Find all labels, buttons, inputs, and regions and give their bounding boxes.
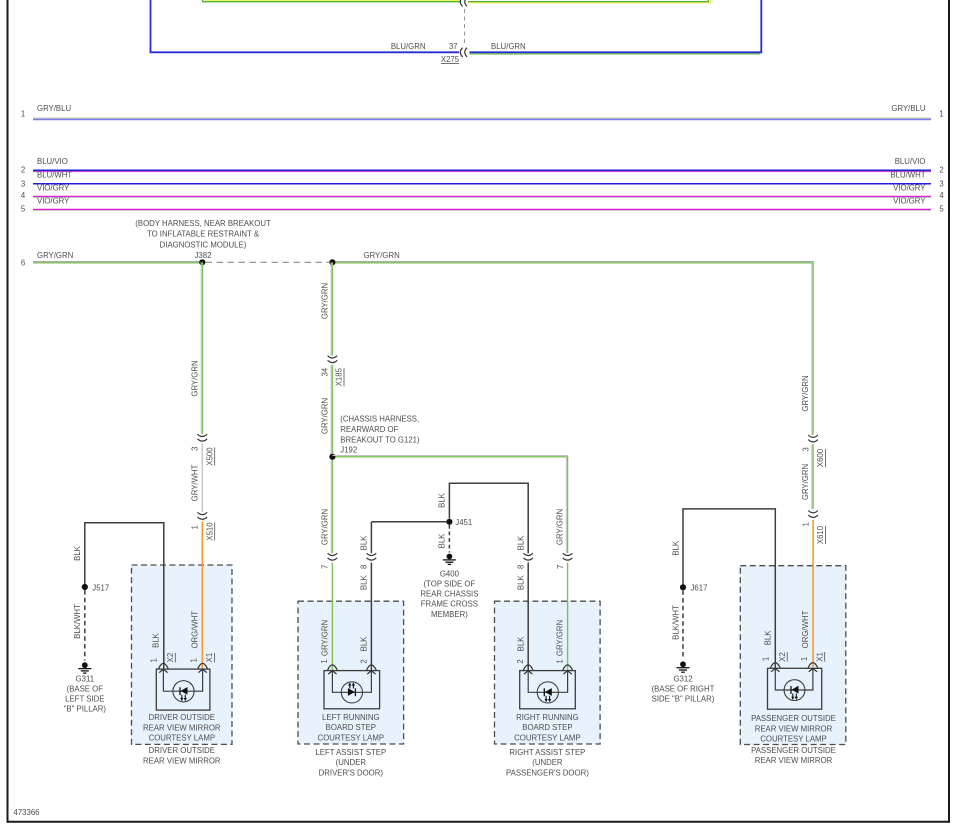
svg-text:7: 7 [321,565,330,569]
wire GRY/GRN middle column mid [320,365,332,457]
svg-text:BLU/GRN: BLU/GRN [491,42,526,51]
svg-text:FRAME CROSS: FRAME CROSS [421,600,478,609]
svg-text:1: 1 [191,525,200,529]
wire GRY/GRN right column mid [801,444,813,509]
svg-text:(UNDER: (UNDER [336,758,367,767]
svg-text:LEFT ASSIST STEP: LEFT ASSIST STEP [315,748,386,757]
lamp passenger mirror courtesy lamp [768,668,822,709]
svg-text:X600: X600 [816,448,825,467]
svg-text:GRY/GRN: GRY/GRN [556,620,565,656]
connector 7 left assist [321,553,338,569]
svg-text:GRY/GRN: GRY/GRN [801,375,810,411]
wire 4 VIO/GRY [21,183,945,200]
svg-text:BLU/WHT: BLU/WHT [890,170,925,179]
svg-text:GRY/GRN: GRY/GRN [364,251,400,260]
junction J451 [446,518,472,527]
svg-text:7: 7 [556,565,565,569]
svg-text:8: 8 [360,565,369,569]
pin 1 X1 driver mirror lamp [190,653,214,673]
dashed wire J382 to J192 breakout [206,261,330,263]
svg-text:G311: G311 [76,674,95,683]
svg-text:X1: X1 [815,652,824,662]
svg-text:LEFT SIDE: LEFT SIDE [65,694,104,703]
wire BLK/WHT to G312 [671,590,683,659]
svg-text:3: 3 [939,180,943,189]
svg-text:8: 8 [517,565,526,569]
wire BLK into right step lamp [516,563,528,671]
svg-text:X275: X275 [441,55,460,64]
svg-text:1: 1 [761,657,770,661]
svg-text:RIGHT RUNNING: RIGHT RUNNING [516,713,579,722]
svg-text:GRY/BLU: GRY/BLU [37,104,71,113]
svg-text:BLK/WHT: BLK/WHT [671,605,680,640]
wire GRY/GRN middle column lower [320,460,332,553]
wire 2 BLU/VIO [21,157,944,175]
svg-text:BLK: BLK [360,636,369,652]
wire BLU/GRN loop [151,0,762,54]
svg-text:COURTESY LAMP: COURTESY LAMP [760,735,826,744]
svg-text:COURTESY LAMP: COURTESY LAMP [149,734,215,743]
svg-text:BLK: BLK [517,575,526,591]
component box driver outside rear view mirror [132,565,233,765]
connector X510 [191,512,215,540]
wire ORG/WHT right column [801,520,813,667]
svg-text:1: 1 [320,659,329,663]
svg-text:5: 5 [939,205,944,214]
note J382 body harness [135,219,271,260]
junction J192 [329,454,335,460]
svg-text:4: 4 [21,191,26,200]
svg-text:TO INFLATABLE RESTRAINT &: TO INFLATABLE RESTRAINT & [147,230,260,239]
svg-text:BLK: BLK [360,535,369,551]
svg-text:3: 3 [801,447,810,451]
wire BLK J451 riser to right step [438,483,529,553]
svg-text:GRY/WHT: GRY/WHT [190,464,199,501]
junction node at x332 [329,259,335,265]
lamp left running board step courtesy lamp [324,671,380,709]
svg-text:GRY/GRN: GRY/GRN [320,283,329,319]
svg-text:COURTESY LAMP: COURTESY LAMP [318,733,384,742]
svg-text:BLK: BLK [438,492,447,508]
svg-text:VIO/GRY: VIO/GRY [893,183,926,192]
svg-text:"B" PILLAR): "B" PILLAR) [64,704,107,713]
svg-text:3: 3 [191,447,200,451]
svg-text:BLK: BLK [438,533,447,549]
svg-text:X1: X1 [205,653,214,663]
svg-text:DRIVER'S DOOR): DRIVER'S DOOR) [319,768,384,777]
svg-text:PASSENGER'S DOOR): PASSENGER'S DOOR) [506,768,589,777]
connector X600 [801,435,825,467]
wire GRY/GRN into right step lamp [556,563,568,671]
svg-text:BOARD STEP: BOARD STEP [522,723,572,732]
svg-text:(BASE OF: (BASE OF [67,684,104,693]
wire GRN/YEL top loop (partial component box) [203,0,711,3]
wire GRY/GRN left column upper [190,262,202,434]
pin 2 left step lamp [367,665,377,674]
svg-text:GRY/BLU: GRY/BLU [891,104,925,113]
pin 1 left step lamp [328,665,338,674]
wire GRY/WHT left column [190,444,202,513]
wire GRY/GRN right column upper [801,262,813,435]
svg-text:1: 1 [939,110,943,119]
svg-text:BLK/WHT: BLK/WHT [73,604,82,639]
component box left assist step [298,601,404,777]
connector X275 upper half on GRN wire [460,0,467,6]
svg-text:LEFT RUNNING: LEFT RUNNING [322,713,379,722]
label BLU/GRN right of X275 [491,42,526,51]
svg-text:DRIVER OUTSIDE: DRIVER OUTSIDE [149,713,215,722]
svg-text:GRY/GRN: GRY/GRN [320,620,329,656]
svg-text:X185: X185 [335,367,344,386]
svg-text:DRIVER OUTSIDE: DRIVER OUTSIDE [149,746,215,755]
svg-text:MEMBER): MEMBER) [431,610,468,619]
svg-text:(BASE OF RIGHT: (BASE OF RIGHT [652,684,715,693]
wire GRY/GRN middle column upper [320,262,332,355]
svg-text:BLK: BLK [73,545,82,561]
wire BLK into left step lamp [359,563,371,671]
svg-text:J192: J192 [340,446,357,455]
svg-text:X610: X610 [816,525,825,544]
wire 6 GRY/GRN right segment [336,251,815,263]
svg-text:BLK: BLK [517,535,526,551]
svg-text:BLU/VIO: BLU/VIO [37,157,68,166]
svg-text:SIDE "B" PILLAR): SIDE "B" PILLAR) [652,695,715,704]
svg-text:BLU/GRN: BLU/GRN [391,42,426,51]
ground G311 [64,662,107,713]
svg-text:4: 4 [939,191,944,200]
junction J382 [199,259,205,265]
svg-text:COURTESY LAMP: COURTESY LAMP [514,733,580,742]
wire ORG/WHT left column [191,522,203,669]
wire 6 GRY/GRN left segment [21,251,202,267]
svg-text:VIO/GRY: VIO/GRY [893,196,926,205]
svg-text:BLK: BLK [763,630,772,646]
svg-text:1: 1 [801,522,810,526]
wire GRY/GRN into left step lamp [320,563,332,671]
svg-text:REAR VIEW MIRROR: REAR VIEW MIRROR [755,756,833,765]
svg-text:1: 1 [800,657,809,661]
svg-text:DIAGNOSTIC MODULE): DIAGNOSTIC MODULE) [160,240,247,249]
svg-text:G312: G312 [673,674,692,683]
dashed link wire X275 [464,9,466,44]
svg-text:X510: X510 [205,522,214,541]
svg-text:2: 2 [21,166,25,175]
svg-text:REAR CHASSIS: REAR CHASSIS [420,590,478,599]
wire 1 GRY/BLU [21,104,944,119]
svg-text:BLK: BLK [360,575,369,591]
svg-text:473366: 473366 [14,808,40,817]
svg-text:BREAKOUT TO G121): BREAKOUT TO G121) [340,435,420,444]
svg-text:3: 3 [21,180,25,189]
junction J517 [82,583,110,592]
connector X185 [321,356,344,387]
wire BLK left step lamp [360,522,447,553]
pin 2 right step lamp [523,665,533,674]
svg-text:1: 1 [556,659,565,663]
svg-text:ORG/WHT: ORG/WHT [191,611,200,649]
svg-text:5: 5 [21,205,26,214]
svg-text:2: 2 [939,166,943,175]
ground G312 [652,661,715,703]
connector X500 [191,434,215,465]
svg-text:REAR VIEW MIRROR: REAR VIEW MIRROR [143,723,221,732]
svg-text:2: 2 [516,659,525,663]
svg-text:GRY/GRN: GRY/GRN [320,509,329,545]
connector X275 [441,42,467,64]
wire 5 VIO/GRY [21,196,945,213]
wire GRY/GRN branch J192 to right step [332,456,567,554]
svg-text:37: 37 [449,42,458,51]
svg-text:J517: J517 [92,583,109,592]
connector 7 right assist [556,553,573,569]
svg-text:BOARD STEP: BOARD STEP [326,723,376,732]
svg-text:REARWARD OF: REARWARD OF [340,425,398,434]
svg-text:6: 6 [21,258,25,267]
svg-text:BLU/VIO: BLU/VIO [895,157,926,166]
lamp U driver mirror courtesy lamp [156,669,210,710]
svg-text:BLK: BLK [671,540,680,556]
svg-text:(BODY HARNESS, NEAR BREAKOUT: (BODY HARNESS, NEAR BREAKOUT [135,219,271,228]
svg-text:J382: J382 [195,251,212,260]
wire BLK passenger mirror [671,509,775,669]
svg-text:RIGHT ASSIST STEP: RIGHT ASSIST STEP [509,748,585,757]
svg-text:BLK: BLK [517,636,526,652]
pin 1 X2 passenger mirror lamp [761,630,787,672]
svg-text:VIO/GRY: VIO/GRY [37,183,70,192]
label BLU/GRN left of X275 [391,42,426,51]
svg-text:REAR VIEW MIRROR: REAR VIEW MIRROR [755,724,833,733]
svg-text:G400: G400 [440,569,460,578]
svg-text:(TOP SIDE OF: (TOP SIDE OF [424,580,476,589]
connector X610 [801,511,825,545]
svg-text:(CHASSIS HARNESS,: (CHASSIS HARNESS, [340,415,419,424]
wire BLK driver mirror [73,523,164,670]
svg-text:REAR VIEW MIRROR: REAR VIEW MIRROR [143,756,221,765]
pin 1 X1 passenger mirror lamp [800,652,824,672]
wire BLK/WHT to G311 [73,590,85,660]
svg-text:X500: X500 [205,447,214,466]
svg-text:1: 1 [21,110,25,119]
junction J617 [680,584,708,593]
svg-text:(UNDER: (UNDER [532,758,563,767]
svg-text:PASSENGER OUTSIDE: PASSENGER OUTSIDE [751,746,836,755]
svg-text:1: 1 [190,658,199,662]
wire 3 BLU/WHT [21,170,944,188]
svg-text:J617: J617 [691,584,708,593]
svg-text:BLU/WHT: BLU/WHT [37,170,72,179]
ground G400 [420,554,478,619]
lamp right running board step courtesy lamp [520,671,576,709]
connector 8 left assist [360,553,377,569]
svg-text:2: 2 [359,659,368,663]
svg-text:X2: X2 [778,652,787,662]
svg-text:GRY/GRN: GRY/GRN [556,509,565,545]
connector 8 right assist [517,553,534,569]
svg-text:X2: X2 [166,653,175,663]
svg-text:PASSENGER OUTSIDE: PASSENGER OUTSIDE [751,714,836,723]
wire BLK J451 to G400 [438,525,450,553]
component box passenger outside rear view mirror [740,566,846,765]
svg-text:J451: J451 [455,518,472,527]
svg-text:GRY/GRN: GRY/GRN [801,464,810,500]
svg-text:GRY/GRN: GRY/GRN [37,251,73,260]
pin 1 right step lamp [563,665,573,674]
svg-text:GRY/GRN: GRY/GRN [320,398,329,434]
component box right assist step [495,601,601,777]
svg-text:34: 34 [321,367,330,376]
svg-text:ORG/WHT: ORG/WHT [801,610,810,648]
pin 1 X2 driver mirror lamp [149,632,175,672]
svg-text:1: 1 [149,658,158,662]
svg-text:BLK: BLK [151,632,160,648]
sheet number 473366 [14,808,40,817]
svg-text:GRY/GRN: GRY/GRN [190,360,199,396]
note J192 chassis harness [340,415,420,455]
svg-text:VIO/GRY: VIO/GRY [37,196,70,205]
